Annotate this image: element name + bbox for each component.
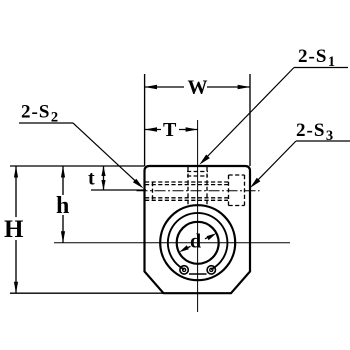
svg-text:H: H (4, 216, 24, 243)
svg-text:T: T (163, 119, 177, 141)
svg-text:d: d (190, 231, 201, 253)
svg-text:t: t (88, 168, 95, 190)
svg-text:W: W (188, 77, 208, 99)
svg-text:h: h (56, 193, 69, 219)
